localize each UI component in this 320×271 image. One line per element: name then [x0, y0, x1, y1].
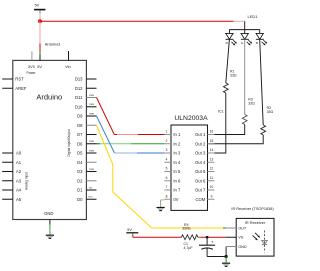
- svg-text:Out 5: Out 5: [195, 169, 206, 174]
- svg-text:5V: 5V: [34, 3, 39, 8]
- svg-text:RST: RST: [15, 77, 24, 82]
- svg-text:D0: D0: [77, 197, 83, 202]
- resistor R3 33 ohm: [242, 98, 255, 125]
- svg-text:D1: D1: [77, 188, 83, 193]
- svg-text:7: 7: [166, 185, 168, 189]
- wire junction right to LED1 anode (red, pink near end): [40, 20, 245, 22]
- IR photodiode symbol: [253, 231, 268, 253]
- svg-text:330Ω: 330Ω: [182, 226, 191, 230]
- wire D8 to IR OUT (yellow): [97, 125, 227, 228]
- wire D9 to In3 (blue): [97, 116, 165, 153]
- capacitor C1 4.7uF (polarized): [184, 237, 216, 256]
- Arduino pin AREF: [2, 87, 13, 89]
- svg-text:D10: D10: [75, 104, 83, 109]
- Arduino pin RST: [2, 78, 13, 80]
- svg-text:6: 6: [166, 176, 168, 180]
- svg-text:D11: D11: [75, 95, 83, 100]
- svg-text:3V3: 3V3: [28, 64, 35, 69]
- svg-text:10: 10: [210, 185, 214, 189]
- ULN2003A chip IC1: [171, 115, 208, 210]
- node junction dot (red): [38, 19, 42, 23]
- wire junction down to Arduino 5V pin: [39, 21, 41, 54]
- svg-text:Digital Input/Output: Digital Input/Output: [67, 129, 71, 156]
- svg-text:LED1: LED1: [247, 14, 258, 19]
- wire 5V symbol to junction (pink, green tip): [39, 10, 41, 21]
- svg-text:D4: D4: [77, 160, 83, 165]
- svg-text:IC1: IC1: [218, 109, 224, 113]
- svg-text:3: 3: [166, 148, 168, 152]
- wire LED G cathode down to R3 (gray): [244, 39, 246, 114]
- svg-text:8: 8: [166, 194, 168, 198]
- ULN2003A right pins Out1-Out7, COM: [195, 130, 214, 202]
- wire ground rail (C1 to IR GND): [207, 256, 226, 258]
- svg-text:PWM: PWM: [89, 104, 94, 106]
- ground symbol (ULN 0V): [157, 208, 165, 212]
- svg-text:In 2: In 2: [173, 141, 181, 146]
- node junction dot at C1 top: [206, 236, 209, 239]
- svg-text:Out 2: Out 2: [195, 141, 206, 146]
- svg-text:Out 1: Out 1: [195, 132, 206, 137]
- LED G triangle: [241, 33, 252, 45]
- svg-text:5: 5: [166, 167, 168, 171]
- svg-text:In 4: In 4: [173, 160, 181, 165]
- IR pin OUT: [226, 227, 236, 229]
- svg-text:D6: D6: [77, 141, 83, 146]
- svg-text:D12: D12: [75, 86, 83, 91]
- svg-text:Arduino: Arduino: [36, 93, 62, 102]
- svg-text:TX▸: TX▸: [89, 186, 93, 189]
- wire ULN 0V to ground: [161, 199, 165, 201]
- svg-text:IR Receiver: IR Receiver: [245, 220, 266, 225]
- IR receiver box: [236, 218, 274, 256]
- svg-text:16: 16: [210, 130, 214, 134]
- svg-text:2: 2: [166, 139, 168, 143]
- IR pin VS: [226, 236, 236, 238]
- Arduino analog pin stubs and labels (left side): [2, 151, 22, 202]
- svg-text:Out 7: Out 7: [195, 188, 206, 193]
- svg-text:IR Receiver (TSOP1838): IR Receiver (TSOP1838): [231, 207, 274, 211]
- svg-text:+: +: [211, 239, 214, 244]
- svg-text:D13: D13: [75, 77, 83, 82]
- svg-text:RX◂: RX◂: [89, 196, 93, 199]
- svg-text:OUT: OUT: [238, 226, 247, 230]
- svg-text:A3: A3: [16, 178, 22, 183]
- svg-text:5V: 5V: [127, 228, 132, 232]
- svg-text:12: 12: [210, 167, 214, 171]
- svg-text:In 7: In 7: [173, 188, 181, 193]
- ground symbol (IR): [222, 257, 230, 267]
- svg-text:9: 9: [211, 194, 213, 198]
- svg-text:GND: GND: [44, 211, 53, 216]
- svg-text:A1: A1: [16, 160, 22, 165]
- svg-text:VS: VS: [238, 236, 244, 240]
- LED R triangle: [226, 33, 237, 45]
- svg-text:In 1: In 1: [173, 132, 181, 137]
- svg-text:1: 1: [166, 130, 168, 134]
- LED B triangle: [256, 33, 267, 45]
- RGB LED LED1 (common anode rail + 3 diodes): [226, 14, 268, 45]
- wire LED B cathode down to R2: [260, 39, 264, 125]
- Arduino top pin 5V: [39, 54, 41, 60]
- svg-text:AREF: AREF: [15, 86, 27, 91]
- resistor R2 33 ohm: [261, 106, 274, 135]
- ground symbol (Arduino): [46, 235, 54, 239]
- svg-text:33Ω: 33Ω: [230, 73, 237, 77]
- svg-text:0V: 0V: [173, 197, 178, 202]
- wire GND pin to ground (green): [49, 224, 51, 234]
- svg-text:Out 3: Out 3: [195, 151, 206, 156]
- svg-text:In 5: In 5: [173, 169, 181, 174]
- svg-text:14: 14: [210, 148, 214, 152]
- svg-text:PWM: PWM: [89, 95, 94, 97]
- svg-text:A0: A0: [16, 151, 22, 156]
- Arduino board outline: [13, 60, 87, 219]
- svg-text:Vin: Vin: [65, 64, 71, 69]
- svg-text:5V: 5V: [37, 64, 42, 69]
- Arduino top pin Vin: [68, 51, 70, 60]
- node junction dot (ground rail): [225, 255, 228, 258]
- wire R4 to IR VS (red): [198, 236, 226, 238]
- svg-text:D7: D7: [77, 132, 83, 137]
- svg-text:PWM: PWM: [89, 113, 94, 115]
- svg-text:D3: D3: [77, 169, 83, 174]
- wire R2 down then left into pin15: [209, 135, 263, 144]
- svg-text:D8: D8: [77, 123, 83, 128]
- svg-text:Out 6: Out 6: [195, 178, 206, 183]
- power symbol 5V (bottom): [126, 228, 138, 233]
- svg-text:PWM: PWM: [89, 141, 94, 143]
- svg-text:A2: A2: [16, 169, 22, 174]
- wire IR GND pin down: [225, 247, 227, 257]
- power symbol 5V (top): [34, 3, 45, 11]
- wire R3 down then left into pin16: [209, 124, 245, 134]
- svg-text:Out 4: Out 4: [195, 160, 206, 165]
- Arduino digital pin stubs and labels (right side): [75, 77, 97, 202]
- svg-text:G: G: [241, 41, 244, 45]
- svg-text:R: R: [226, 41, 229, 45]
- svg-text:PWM: PWM: [89, 150, 94, 152]
- wire LED R cathode down to R1: [226, 39, 230, 83]
- svg-text:In 3: In 3: [173, 151, 181, 156]
- Arduino pin GND (bottom): [49, 220, 51, 225]
- svg-text:GND: GND: [238, 245, 247, 249]
- svg-text:11: 11: [210, 176, 214, 180]
- resistor R1 33 ohm: [223, 69, 236, 93]
- svg-text:13: 13: [210, 157, 214, 161]
- wire D11 to In1 (red): [97, 98, 165, 135]
- svg-text:A4: A4: [16, 188, 22, 193]
- svg-text:A5: A5: [16, 197, 22, 202]
- svg-text:4: 4: [166, 157, 168, 161]
- Arduino labels: [15, 41, 71, 216]
- svg-text:D2: D2: [77, 178, 83, 183]
- svg-text:Power: Power: [26, 71, 36, 75]
- svg-text:B: B: [256, 41, 258, 45]
- svg-text:In 6: In 6: [173, 178, 181, 183]
- svg-text:PWM: PWM: [89, 169, 94, 171]
- svg-text:33Ω: 33Ω: [248, 102, 255, 106]
- svg-text:D9: D9: [77, 114, 83, 119]
- svg-text:Arduino3: Arduino3: [45, 41, 61, 46]
- svg-text:4,7µF: 4,7µF: [184, 246, 193, 250]
- svg-text:15: 15: [210, 139, 214, 143]
- Arduino top pin 3V3: [31, 51, 33, 60]
- svg-text:COM: COM: [196, 197, 206, 202]
- ULN2003A left pins In1-In7, 0V: [164, 130, 181, 202]
- resistor R4 330 ohm: [181, 223, 198, 240]
- wire 5V to R4 (red, green tip): [133, 234, 182, 238]
- svg-text:ULN2003A: ULN2003A: [174, 115, 208, 122]
- svg-text:D5: D5: [77, 151, 83, 156]
- wire R1 down to pin14 row: [209, 93, 226, 153]
- IR pin GND: [226, 246, 236, 248]
- svg-text:Analog Input: Analog Input: [24, 172, 28, 190]
- wire D6 to In2 (green): [97, 143, 165, 145]
- svg-text:33Ω: 33Ω: [267, 110, 274, 114]
